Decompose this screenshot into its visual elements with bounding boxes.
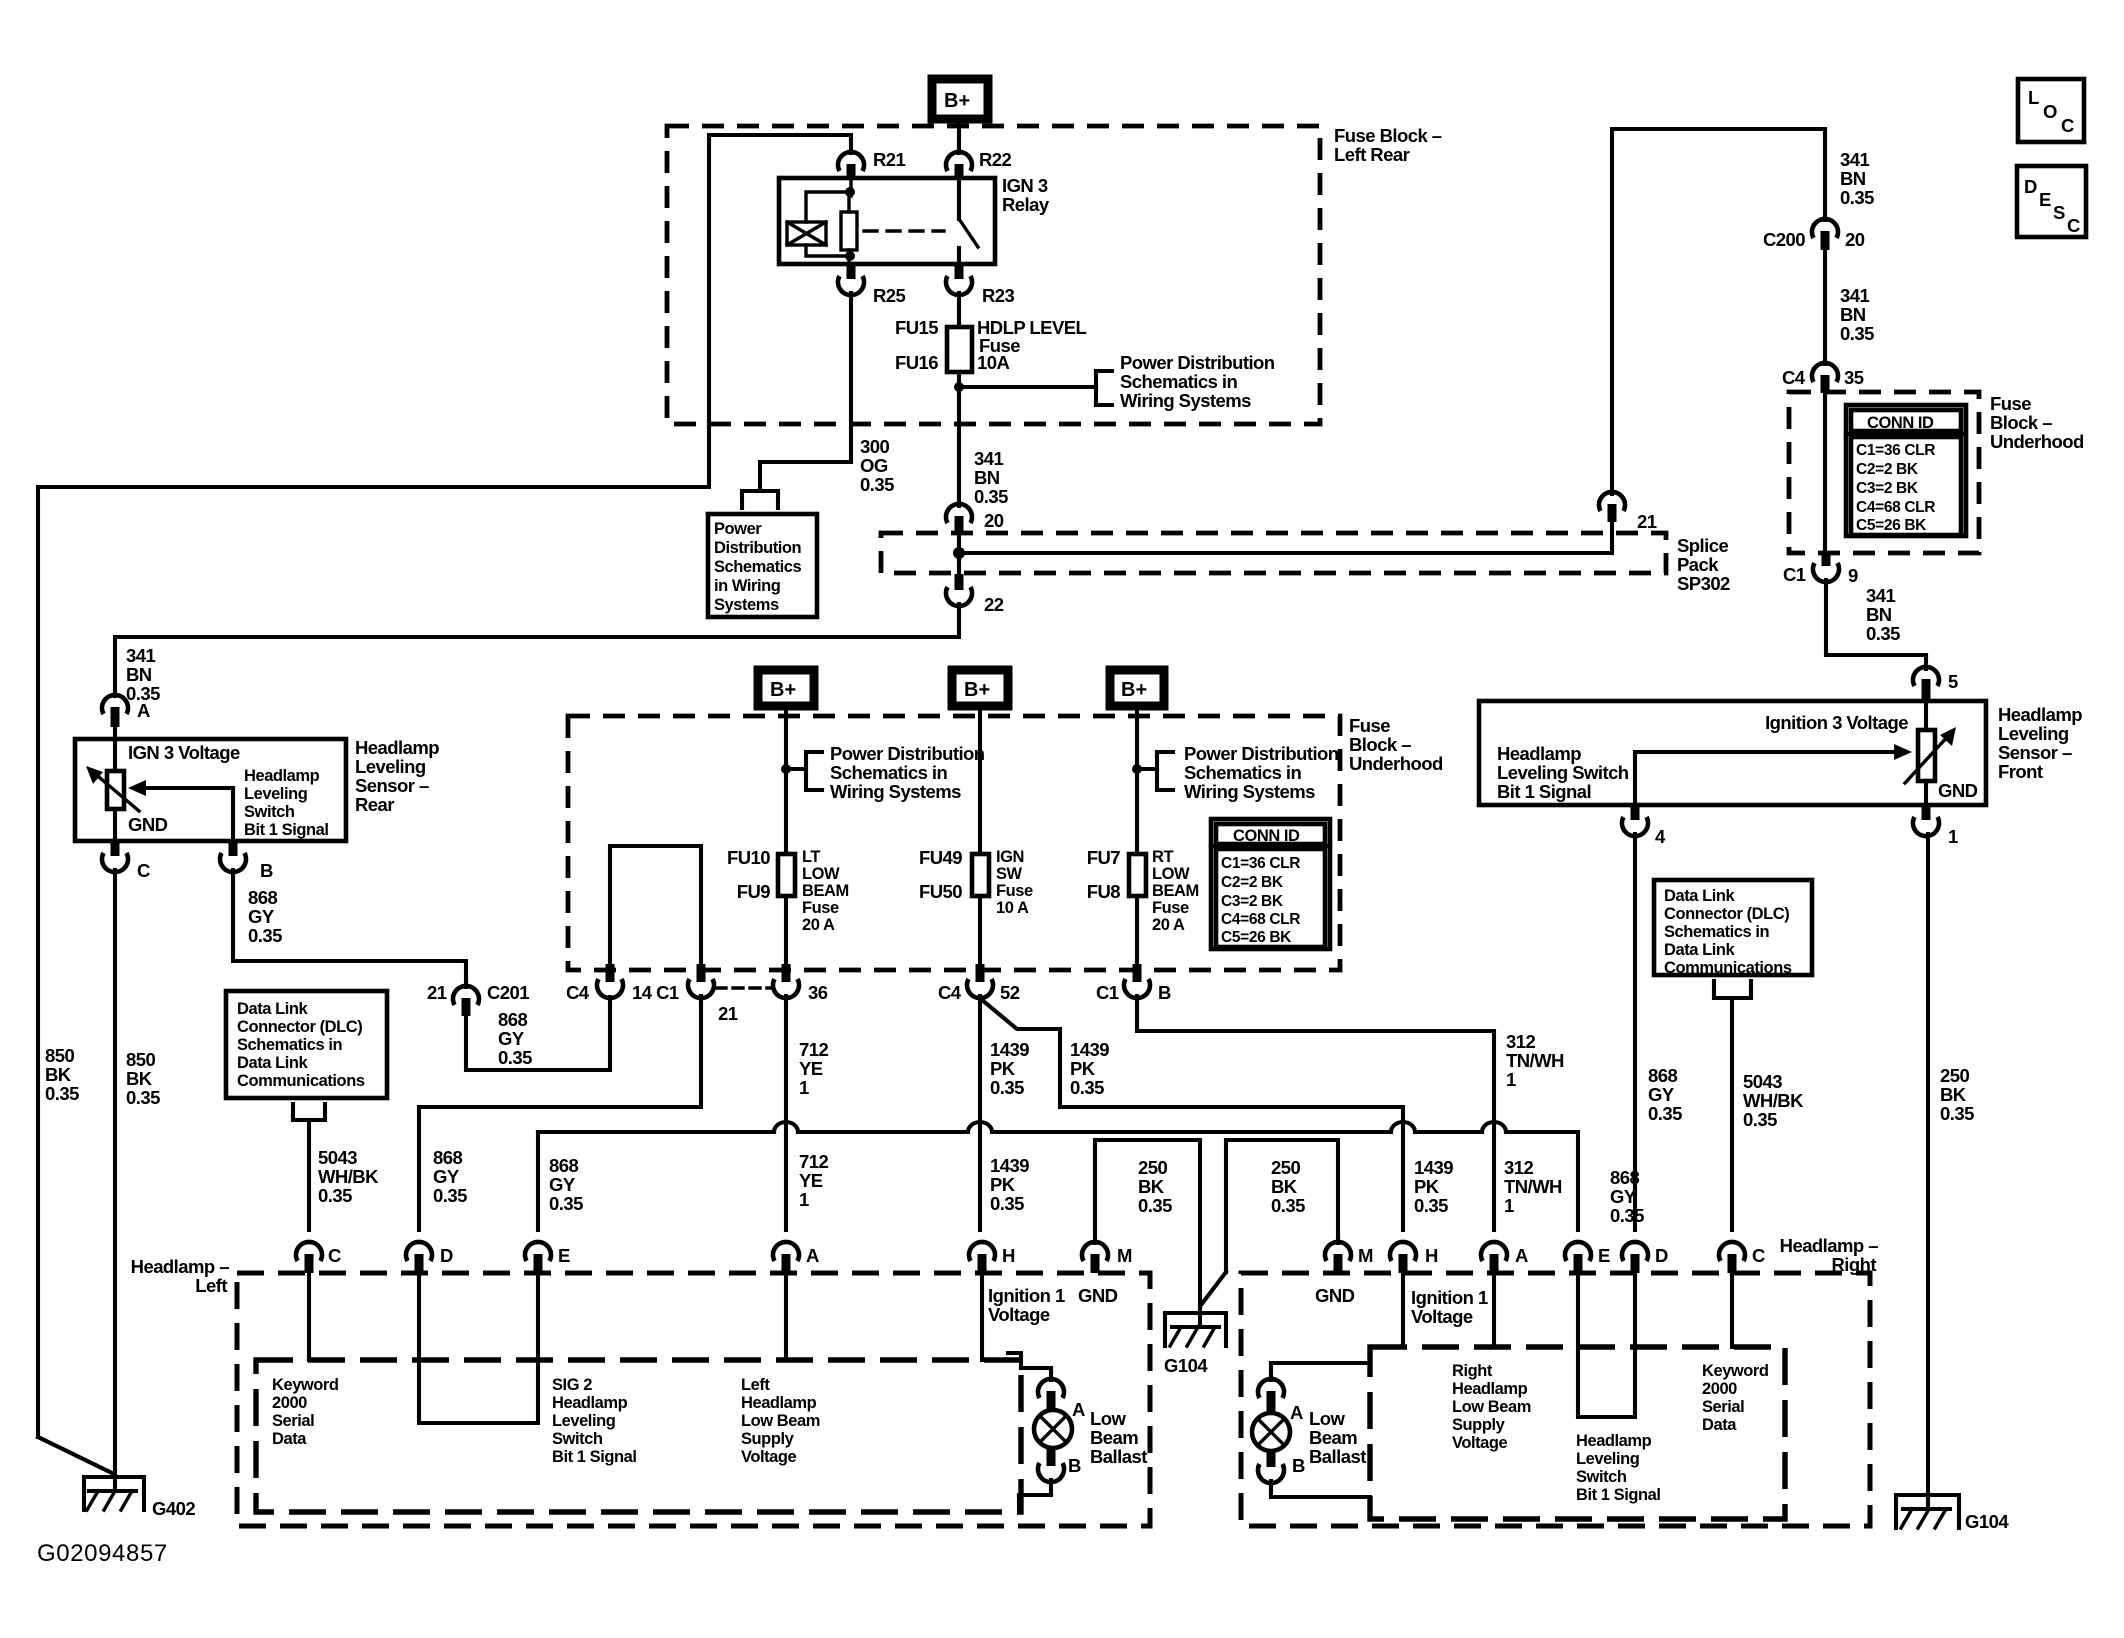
svg-text:R23: R23 bbox=[982, 285, 1015, 306]
svg-text:C4: C4 bbox=[1782, 367, 1806, 388]
connector C4 pin 35 bbox=[1782, 363, 1864, 393]
svg-text:0.35: 0.35 bbox=[990, 1077, 1024, 1098]
label 341 BN 0.35 (below C1 9) bbox=[1866, 585, 1900, 644]
label Keyword 2000 Serial Data (right) bbox=[1702, 1362, 1769, 1434]
svg-text:YE: YE bbox=[799, 1058, 823, 1079]
svg-text:Connector (DLC): Connector (DLC) bbox=[1664, 905, 1789, 923]
svg-text:Schematics in: Schematics in bbox=[830, 762, 948, 783]
svg-text:Sensor –: Sensor – bbox=[355, 775, 429, 796]
fuse FU7/FU8 RT LOW BEAM 20A bbox=[1087, 847, 1199, 934]
wire 868 GY left E to right E (with hops) bbox=[538, 1122, 1578, 1230]
svg-text:Left: Left bbox=[195, 1275, 227, 1296]
svg-text:Leveling: Leveling bbox=[1576, 1450, 1639, 1468]
relay coil bbox=[787, 222, 826, 245]
svg-text:341: 341 bbox=[126, 645, 155, 666]
svg-text:Low: Low bbox=[1090, 1408, 1127, 1429]
svg-text:250: 250 bbox=[1940, 1065, 1969, 1086]
svg-text:21: 21 bbox=[718, 1003, 738, 1024]
svg-text:250: 250 bbox=[1271, 1157, 1300, 1178]
signal arrow into pot (front) bbox=[1635, 744, 1912, 760]
svg-text:Underhood: Underhood bbox=[1349, 753, 1443, 774]
svg-text:GY: GY bbox=[433, 1166, 460, 1187]
wire pot B inside box bbox=[231, 788, 235, 841]
connector D (headlamp left) bbox=[406, 1242, 453, 1273]
svg-text:B: B bbox=[260, 860, 273, 881]
potentiometer (rear sensor) bbox=[107, 739, 124, 841]
connector C4 pin 52 (fuse block bottom) bbox=[938, 964, 1020, 1003]
svg-text:C1: C1 bbox=[1096, 982, 1119, 1003]
signal arrow into pot (rear) bbox=[128, 780, 233, 796]
label Headlamp - Left bbox=[131, 1256, 230, 1296]
svg-text:Headlamp –: Headlamp – bbox=[1780, 1235, 1879, 1256]
relay switch contact bbox=[959, 178, 978, 264]
svg-text:Bit 1 Signal: Bit 1 Signal bbox=[244, 821, 328, 839]
label 250 BK 0.35 (left M) bbox=[1138, 1157, 1172, 1216]
relay internal wiring top bbox=[806, 178, 855, 222]
svg-text:1: 1 bbox=[799, 1189, 809, 1210]
svg-text:Fuse: Fuse bbox=[1152, 899, 1189, 917]
label 868 GY 0.35 (below B) bbox=[248, 887, 282, 946]
ground G104 (center) bbox=[1164, 1313, 1226, 1376]
svg-text:Schematics: Schematics bbox=[714, 558, 801, 576]
connector 20 (splice pack in) bbox=[946, 504, 1004, 553]
wire B+1 to FU10 bbox=[784, 710, 788, 854]
battery feed B+ (center 2) bbox=[952, 670, 1008, 706]
wire B+3 to FU7 bbox=[1135, 710, 1139, 854]
junction dot 2 bbox=[1132, 764, 1142, 774]
wire DLC to headlamp left C bbox=[307, 1120, 311, 1230]
svg-text:341: 341 bbox=[1840, 285, 1869, 306]
svg-text:C2=2 BK: C2=2 BK bbox=[1221, 874, 1284, 891]
power distribution reference box (left) bbox=[708, 514, 817, 617]
svg-text:C1=36 CLR: C1=36 CLR bbox=[1856, 442, 1935, 459]
svg-text:C200: C200 bbox=[1763, 229, 1805, 250]
junction dot 1 bbox=[781, 764, 791, 774]
svg-text:0.35: 0.35 bbox=[990, 1193, 1024, 1214]
svg-text:Headlamp: Headlamp bbox=[1497, 743, 1581, 764]
potentiometer (front sensor) bbox=[1918, 701, 1935, 805]
svg-text:Switch: Switch bbox=[244, 803, 295, 821]
label Headlamp Leveling Sensor - Front bbox=[1998, 704, 2082, 782]
inner module box (headlamp right) bbox=[1370, 1347, 1785, 1519]
svg-text:Bit 1 Signal: Bit 1 Signal bbox=[1497, 781, 1591, 802]
bracket above power distribution box bbox=[742, 491, 778, 508]
svg-text:B: B bbox=[1292, 1455, 1305, 1476]
svg-text:Connector (DLC): Connector (DLC) bbox=[237, 1018, 362, 1036]
svg-text:341: 341 bbox=[1840, 149, 1869, 170]
svg-text:GND: GND bbox=[1078, 1285, 1118, 1306]
svg-text:Bit 1 Signal: Bit 1 Signal bbox=[1576, 1486, 1660, 1504]
svg-text:PK: PK bbox=[990, 1174, 1016, 1195]
svg-text:Headlamp: Headlamp bbox=[355, 737, 439, 758]
svg-text:BK: BK bbox=[1138, 1176, 1165, 1197]
svg-text:C3=2 BK: C3=2 BK bbox=[1221, 893, 1284, 910]
connector D (headlamp right) bbox=[1622, 1242, 1668, 1273]
svg-text:Headlamp: Headlamp bbox=[1452, 1380, 1528, 1398]
svg-text:E: E bbox=[1598, 1245, 1610, 1266]
svg-text:312: 312 bbox=[1506, 1031, 1535, 1052]
svg-text:0.35: 0.35 bbox=[1070, 1077, 1104, 1098]
label Left Headlamp Low Beam Supply Voltage bbox=[741, 1376, 820, 1466]
svg-text:Bit 1 Signal: Bit 1 Signal bbox=[552, 1448, 636, 1466]
svg-text:712: 712 bbox=[799, 1151, 828, 1172]
svg-text:Data: Data bbox=[272, 1430, 307, 1448]
svg-text:D: D bbox=[1655, 1245, 1668, 1266]
wire R21 up and left out of box bbox=[38, 135, 851, 1437]
label Keyword 2000 Serial Data (left) bbox=[272, 1376, 339, 1448]
svg-text:Ignition 1: Ignition 1 bbox=[1411, 1287, 1488, 1308]
svg-text:Communications: Communications bbox=[237, 1072, 365, 1090]
svg-text:C: C bbox=[328, 1245, 341, 1266]
connector 21 (splice pack) bbox=[1599, 492, 1657, 553]
svg-text:Headlamp: Headlamp bbox=[244, 767, 320, 785]
wire C200 to C4 bbox=[1823, 250, 1827, 364]
svg-text:341: 341 bbox=[974, 448, 1003, 469]
svg-text:10A: 10A bbox=[977, 352, 1009, 373]
svg-text:H: H bbox=[1002, 1245, 1015, 1266]
svg-text:R21: R21 bbox=[873, 149, 906, 170]
connector C (rear sensor) bbox=[102, 841, 150, 881]
svg-text:L: L bbox=[2028, 87, 2039, 108]
label 868 GY 0.35 (above left E) bbox=[549, 1155, 583, 1214]
svg-text:1439: 1439 bbox=[1414, 1157, 1453, 1178]
wire H into module (right) bbox=[1401, 1273, 1405, 1347]
svg-text:20 A: 20 A bbox=[1152, 916, 1185, 934]
connector 5 (front sensor) bbox=[1913, 667, 1958, 701]
svg-text:C1: C1 bbox=[1783, 564, 1806, 585]
svg-text:Keyword: Keyword bbox=[272, 1376, 339, 1394]
svg-text:Splice: Splice bbox=[1677, 535, 1728, 556]
svg-text:C3=2 BK: C3=2 BK bbox=[1856, 480, 1919, 497]
svg-text:0.35: 0.35 bbox=[498, 1047, 532, 1068]
svg-text:TN/WH: TN/WH bbox=[1506, 1050, 1564, 1071]
svg-text:D: D bbox=[2024, 176, 2037, 197]
label IGN 3 Relay bbox=[1002, 175, 1050, 215]
wire FU7 to pin B bbox=[1135, 896, 1139, 966]
svg-text:Schematics in: Schematics in bbox=[237, 1036, 342, 1054]
svg-text:C4=68 CLR: C4=68 CLR bbox=[1221, 911, 1300, 928]
svg-text:GND: GND bbox=[1315, 1285, 1355, 1306]
label Low Beam Ballast (left) bbox=[1090, 1408, 1147, 1467]
label 341 BN 0.35 (top right) bbox=[1840, 149, 1874, 208]
svg-text:BN: BN bbox=[1840, 168, 1866, 189]
label 250 BK 0.35 (right) bbox=[1940, 1065, 1974, 1124]
wire M to ground loop (left) bbox=[1095, 1140, 1200, 1327]
svg-text:Low Beam: Low Beam bbox=[1452, 1398, 1531, 1416]
svg-text:SIG 2: SIG 2 bbox=[552, 1376, 592, 1394]
svg-text:21: 21 bbox=[427, 982, 447, 1003]
svg-text:B+: B+ bbox=[770, 679, 796, 701]
svg-text:C4=68 CLR: C4=68 CLR bbox=[1856, 499, 1935, 516]
svg-text:C: C bbox=[2061, 115, 2074, 136]
label 712 YE 1 (upper) bbox=[799, 1039, 828, 1098]
label Fuse Block - Left Rear bbox=[1334, 125, 1442, 165]
svg-text:Wiring Systems: Wiring Systems bbox=[830, 781, 961, 802]
svg-text:Block –: Block – bbox=[1349, 734, 1411, 755]
label 312 TN/WH 1 (upper) bbox=[1506, 1031, 1564, 1090]
svg-text:36: 36 bbox=[808, 982, 828, 1003]
wire C to ground G402 (850 BK) bbox=[113, 870, 117, 1491]
internal jumper wire C4-14 to C1-21 bbox=[610, 846, 701, 966]
label Fuse Block - Underhood (right) bbox=[1990, 393, 2084, 452]
headlamp leveling sensor rear box bbox=[75, 739, 346, 841]
svg-text:0.35: 0.35 bbox=[1840, 187, 1874, 208]
wire A into module (right) bbox=[1492, 1273, 1496, 1347]
svg-text:20 A: 20 A bbox=[802, 916, 835, 934]
svg-text:1: 1 bbox=[799, 1077, 809, 1098]
dashed connector link 21 to 36 bbox=[716, 986, 772, 989]
junction dot bbox=[954, 382, 964, 392]
svg-text:Fuse: Fuse bbox=[996, 882, 1033, 900]
svg-text:868: 868 bbox=[433, 1147, 462, 1168]
svg-text:G402: G402 bbox=[152, 1498, 195, 1519]
wire junction to callout bracket bbox=[959, 385, 1096, 389]
wire 22 to rear sensor A bbox=[115, 604, 959, 696]
svg-text:Fuse: Fuse bbox=[802, 899, 839, 917]
CONN ID table (center) bbox=[1211, 819, 1330, 949]
svg-text:10 A: 10 A bbox=[996, 899, 1029, 917]
svg-text:G02094857: G02094857 bbox=[37, 1540, 168, 1567]
svg-text:0.35: 0.35 bbox=[1866, 623, 1900, 644]
svg-text:Voltage: Voltage bbox=[1452, 1434, 1507, 1452]
svg-text:Schematics in: Schematics in bbox=[1120, 371, 1238, 392]
connector H (headlamp right) bbox=[1390, 1242, 1438, 1273]
svg-text:Switch: Switch bbox=[552, 1430, 603, 1448]
svg-text:Headlamp: Headlamp bbox=[1998, 704, 2082, 725]
svg-text:GY: GY bbox=[1648, 1084, 1675, 1105]
svg-text:Voltage: Voltage bbox=[741, 1448, 796, 1466]
svg-text:Right: Right bbox=[1452, 1362, 1493, 1380]
connector R23 bbox=[946, 264, 1015, 306]
callout text power distribution bbox=[1120, 352, 1275, 411]
connector C (headlamp right) bbox=[1719, 1242, 1765, 1273]
svg-text:Fuse: Fuse bbox=[1349, 715, 1390, 736]
label 1439 PK 0.35 (branch) bbox=[1070, 1039, 1109, 1098]
lamp connector B (left) bbox=[1038, 1448, 1081, 1482]
svg-text:BN: BN bbox=[126, 664, 152, 685]
svg-text:FU15: FU15 bbox=[895, 317, 938, 338]
svg-text:2000: 2000 bbox=[1702, 1380, 1737, 1398]
svg-text:PK: PK bbox=[1414, 1176, 1440, 1197]
wire fuse to splice 20 bbox=[957, 372, 961, 506]
svg-text:868: 868 bbox=[549, 1155, 578, 1176]
label 868 GY 0.35 (above left D) bbox=[433, 1147, 467, 1206]
svg-text:0.35: 0.35 bbox=[1271, 1195, 1305, 1216]
svg-text:GND: GND bbox=[128, 814, 168, 835]
data link connector reference box (right) bbox=[1654, 880, 1812, 977]
svg-text:Headlamp: Headlamp bbox=[1576, 1432, 1652, 1450]
wire 868 GY pin C1-21 to left headlamp D bbox=[419, 996, 701, 1230]
svg-text:Data Link: Data Link bbox=[237, 1000, 308, 1018]
svg-text:CONN ID: CONN ID bbox=[1233, 827, 1300, 845]
svg-text:in Wiring: in Wiring bbox=[714, 577, 780, 595]
svg-text:868: 868 bbox=[498, 1009, 527, 1030]
svg-text:BEAM: BEAM bbox=[802, 882, 849, 900]
bracket below DLC box (right) bbox=[1714, 981, 1751, 998]
svg-text:Beam: Beam bbox=[1090, 1427, 1138, 1448]
svg-text:GY: GY bbox=[248, 906, 275, 927]
wire R23 to fuse FU15 bbox=[957, 293, 961, 327]
svg-text:SW: SW bbox=[996, 865, 1023, 883]
wire M to ground loop (right) bbox=[1201, 1140, 1338, 1305]
wire B to C201 bbox=[233, 870, 466, 987]
svg-text:Left: Left bbox=[741, 1376, 770, 1394]
label 1439 PK 0.35 (lower right) bbox=[1414, 1157, 1453, 1216]
svg-text:M: M bbox=[1358, 1245, 1373, 1266]
svg-text:GY: GY bbox=[498, 1028, 525, 1049]
svg-text:4: 4 bbox=[1655, 826, 1666, 847]
svg-text:Power Distribution: Power Distribution bbox=[1184, 743, 1339, 764]
connector 4 (front sensor) bbox=[1622, 805, 1666, 847]
lamp connector A (left) bbox=[1038, 1379, 1085, 1420]
label 312 TN/WH 1 (lower) bbox=[1504, 1157, 1562, 1216]
headlamp leveling sensor front box bbox=[1479, 701, 1986, 805]
svg-text:RT: RT bbox=[1152, 848, 1173, 866]
wire splice 21 up to C200 bbox=[1612, 129, 1825, 494]
wire R25 to power distribution box bbox=[760, 293, 851, 491]
svg-text:E: E bbox=[2039, 189, 2051, 210]
relay internal wiring bottom bbox=[806, 245, 855, 264]
svg-text:Data Link: Data Link bbox=[237, 1054, 308, 1072]
wire 1439 PK branch pin 52 to right headlamp H bbox=[982, 1000, 1403, 1230]
svg-text:0.35: 0.35 bbox=[1840, 323, 1874, 344]
svg-text:14 C1: 14 C1 bbox=[632, 982, 679, 1003]
label Low Beam Ballast (right) bbox=[1309, 1408, 1366, 1467]
callout bracket (center left) bbox=[786, 752, 822, 790]
label Headlamp - Right bbox=[1780, 1235, 1879, 1275]
connector C1 pin 9 bbox=[1783, 553, 1858, 586]
svg-text:C4: C4 bbox=[938, 982, 962, 1003]
svg-text:Leveling: Leveling bbox=[552, 1412, 615, 1430]
svg-text:850: 850 bbox=[45, 1045, 74, 1066]
svg-text:Right: Right bbox=[1831, 1254, 1876, 1275]
svg-text:H: H bbox=[1425, 1245, 1438, 1266]
svg-text:Serial: Serial bbox=[1702, 1398, 1744, 1416]
wire 1439 PK pin 52 to left headlamp H bbox=[978, 996, 982, 1230]
svg-text:Leveling Switch: Leveling Switch bbox=[1497, 762, 1629, 783]
svg-text:R22: R22 bbox=[979, 149, 1012, 170]
label Ignition 1 Voltage (headlamp right) bbox=[1411, 1287, 1488, 1327]
battery feed B+ (center 1) bbox=[758, 670, 814, 706]
svg-text:G104: G104 bbox=[1164, 1355, 1208, 1376]
wire feed to lamp A (left) bbox=[1008, 1353, 1051, 1380]
connector R22 bbox=[946, 149, 1012, 178]
connector A (rear sensor) bbox=[102, 695, 150, 739]
low beam lamp (right) bbox=[1252, 1413, 1290, 1451]
svg-text:Fuse: Fuse bbox=[1990, 393, 2031, 414]
svg-text:GND: GND bbox=[1938, 780, 1978, 801]
svg-text:S: S bbox=[2053, 202, 2065, 223]
svg-text:SP302: SP302 bbox=[1677, 573, 1730, 594]
svg-text:22: 22 bbox=[984, 594, 1004, 615]
wire 712 YE pin 36 to left headlamp A bbox=[784, 996, 788, 1230]
svg-text:WH/BK: WH/BK bbox=[1743, 1090, 1804, 1111]
label 1439 PK 0.35 (upper left) bbox=[990, 1039, 1029, 1098]
svg-text:Ignition 1: Ignition 1 bbox=[988, 1285, 1065, 1306]
svg-text:A: A bbox=[806, 1245, 819, 1266]
lamp connector B (right) bbox=[1258, 1451, 1305, 1483]
svg-text:PK: PK bbox=[1070, 1058, 1096, 1079]
svg-text:WH/BK: WH/BK bbox=[318, 1166, 379, 1187]
ground G402 bbox=[84, 1477, 195, 1519]
svg-text:35: 35 bbox=[1844, 367, 1864, 388]
ground G104 (right) bbox=[1896, 1495, 2009, 1532]
svg-text:868: 868 bbox=[1648, 1065, 1677, 1086]
connector E (headlamp left) bbox=[525, 1242, 570, 1273]
inner module box (headlamp left) bbox=[256, 1360, 1021, 1512]
connector C1 pin B (fuse block bottom) bbox=[1096, 964, 1171, 1003]
svg-text:1439: 1439 bbox=[1070, 1039, 1109, 1060]
svg-text:G104: G104 bbox=[1965, 1511, 2009, 1532]
svg-text:Ballast: Ballast bbox=[1090, 1446, 1147, 1467]
callout text power distribution (center right) bbox=[1184, 743, 1339, 802]
wire C1 9 to sensor pin 5 bbox=[1826, 580, 1926, 669]
svg-text:Underhood: Underhood bbox=[1990, 431, 2084, 452]
label Ignition 1 Voltage (headlamp left) bbox=[988, 1285, 1065, 1325]
label 868 GY 0.35 (below C201) bbox=[498, 1009, 532, 1068]
svg-text:BN: BN bbox=[1866, 604, 1892, 625]
label Headlamp Leveling Sensor - Rear bbox=[355, 737, 439, 815]
fuse FU15/FU16 HDLP LEVEL 10A bbox=[895, 317, 1087, 373]
svg-text:1: 1 bbox=[1948, 826, 1958, 847]
svg-text:C: C bbox=[137, 860, 150, 881]
svg-text:868: 868 bbox=[248, 887, 277, 908]
fuse block underhood dashed box (right) bbox=[1789, 392, 1979, 553]
wire D-E jumper (left) bbox=[419, 1273, 538, 1423]
label 5043 WH/BK 0.35 (left) bbox=[318, 1147, 379, 1206]
svg-text:BN: BN bbox=[974, 467, 1000, 488]
svg-text:M: M bbox=[1117, 1245, 1132, 1266]
svg-text:0.35: 0.35 bbox=[45, 1083, 79, 1104]
svg-text:FU16: FU16 bbox=[895, 352, 938, 373]
svg-text:GY: GY bbox=[1610, 1186, 1637, 1207]
svg-text:Leveling: Leveling bbox=[355, 756, 426, 777]
svg-text:Relay: Relay bbox=[1002, 194, 1050, 215]
svg-text:LOW: LOW bbox=[802, 865, 840, 883]
svg-text:Power Distribution: Power Distribution bbox=[830, 743, 985, 764]
label SIG 2 Headlamp Leveling Switch Bit 1 Signal (left) bbox=[552, 1376, 636, 1466]
wire C into module (left) bbox=[307, 1273, 311, 1360]
svg-text:C5=26 BK: C5=26 BK bbox=[1856, 517, 1927, 534]
svg-text:Data Link: Data Link bbox=[1664, 941, 1735, 959]
wire B+ to R22 bbox=[957, 123, 961, 153]
svg-text:312: 312 bbox=[1504, 1157, 1533, 1178]
wire lamp B return (left) bbox=[1019, 1480, 1051, 1512]
fuse block underhood dashed box (center) bbox=[568, 716, 1340, 970]
svg-text:0.35: 0.35 bbox=[126, 1087, 160, 1108]
svg-text:Leveling: Leveling bbox=[1998, 723, 2069, 744]
svg-text:Wiring Systems: Wiring Systems bbox=[1184, 781, 1315, 802]
connector R25 bbox=[838, 264, 906, 306]
svg-text:FU9: FU9 bbox=[737, 881, 771, 902]
svg-text:Low: Low bbox=[1309, 1408, 1346, 1429]
svg-text:A: A bbox=[137, 700, 150, 721]
svg-text:Voltage: Voltage bbox=[1411, 1306, 1473, 1327]
label 300 OG 0.35 bbox=[860, 436, 894, 495]
callout bracket (center right) bbox=[1137, 752, 1173, 790]
svg-text:GY: GY bbox=[549, 1174, 576, 1195]
svg-text:Serial: Serial bbox=[272, 1412, 314, 1430]
svg-text:FU50: FU50 bbox=[919, 881, 962, 902]
svg-text:5043: 5043 bbox=[318, 1147, 357, 1168]
svg-text:Beam: Beam bbox=[1309, 1427, 1357, 1448]
svg-text:IGN: IGN bbox=[996, 848, 1024, 866]
label 712 YE 1 (lower) bbox=[799, 1151, 828, 1210]
label Right Headlamp Low Beam Supply Voltage bbox=[1452, 1362, 1531, 1452]
svg-text:C201: C201 bbox=[487, 982, 529, 1003]
svg-text:C: C bbox=[2067, 215, 2080, 236]
svg-text:Front: Front bbox=[1998, 761, 2043, 782]
